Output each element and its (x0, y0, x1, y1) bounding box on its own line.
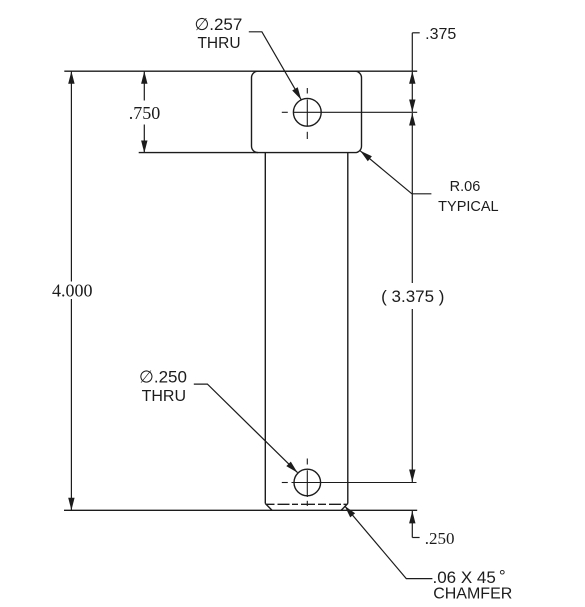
svg-text:R.06: R.06 (450, 179, 481, 195)
top hole vertical centerline (306, 88, 308, 94)
column right edge (347, 153, 349, 504)
arrow .750 bottom (141, 141, 147, 154)
leader chamfer (345, 506, 433, 579)
svg-text:THRU: THRU (142, 388, 186, 405)
chamfer diagonal left (265, 504, 272, 511)
svg-text:∅.257: ∅.257 (194, 15, 242, 34)
dim line (3.375) (411, 113, 413, 283)
bottom hole vertical centerline (306, 459, 308, 465)
bottom hole horizontal centerline (282, 482, 288, 484)
arrow 4.000 bottom (68, 498, 74, 511)
arrow leader .250 (286, 462, 297, 473)
svg-text:.06 X 45°: .06 X 45° (433, 567, 506, 588)
chamfer edge dashed line (267, 503, 347, 505)
arrow 3.375 bottom (409, 470, 415, 483)
leader R.06 (360, 151, 431, 194)
arrow .375 top (409, 71, 415, 84)
chamfer diagonal right (341, 504, 348, 511)
svg-text:.750: .750 (129, 103, 161, 123)
arrow .750 top (141, 71, 147, 84)
svg-text:.375: .375 (425, 26, 456, 43)
arrow leader chamfer (345, 506, 356, 518)
top block outline (252, 71, 362, 152)
top hole horizontal centerline (282, 111, 288, 113)
svg-text:( 3.375 ): ( 3.375 ) (381, 287, 444, 306)
svg-text:.250: .250 (425, 529, 455, 548)
svg-text:TYPICAL: TYPICAL (438, 199, 498, 215)
arrow leader .257 (292, 87, 301, 99)
dim line .250 stem and foot (411, 511, 413, 538)
top edge line with extension (64, 70, 417, 72)
dim line .375 upper segment with text foot (411, 33, 413, 112)
block bottom extension line (139, 152, 258, 154)
svg-text:∅.250: ∅.250 (139, 367, 187, 386)
arrow .375 bottom (409, 100, 415, 113)
top hole circle (293, 98, 321, 126)
svg-text:THRU: THRU (197, 35, 240, 52)
arrow .250 up (409, 511, 415, 524)
bottom hole circle (294, 469, 321, 496)
dim line .750 (143, 71, 145, 100)
svg-text:4.000: 4.000 (52, 281, 93, 301)
leader diam .257 (249, 32, 301, 100)
arrow 4.000 top (68, 71, 74, 84)
arrow leader R.06 (360, 151, 372, 162)
svg-text:CHAMFER: CHAMFER (433, 586, 512, 603)
leader diam .250 (194, 384, 298, 473)
dim line 4.000 (70, 71, 72, 281)
column left edge (264, 153, 266, 504)
bottom edge line with extension (64, 509, 417, 511)
arrow 3.375 top (409, 113, 415, 126)
